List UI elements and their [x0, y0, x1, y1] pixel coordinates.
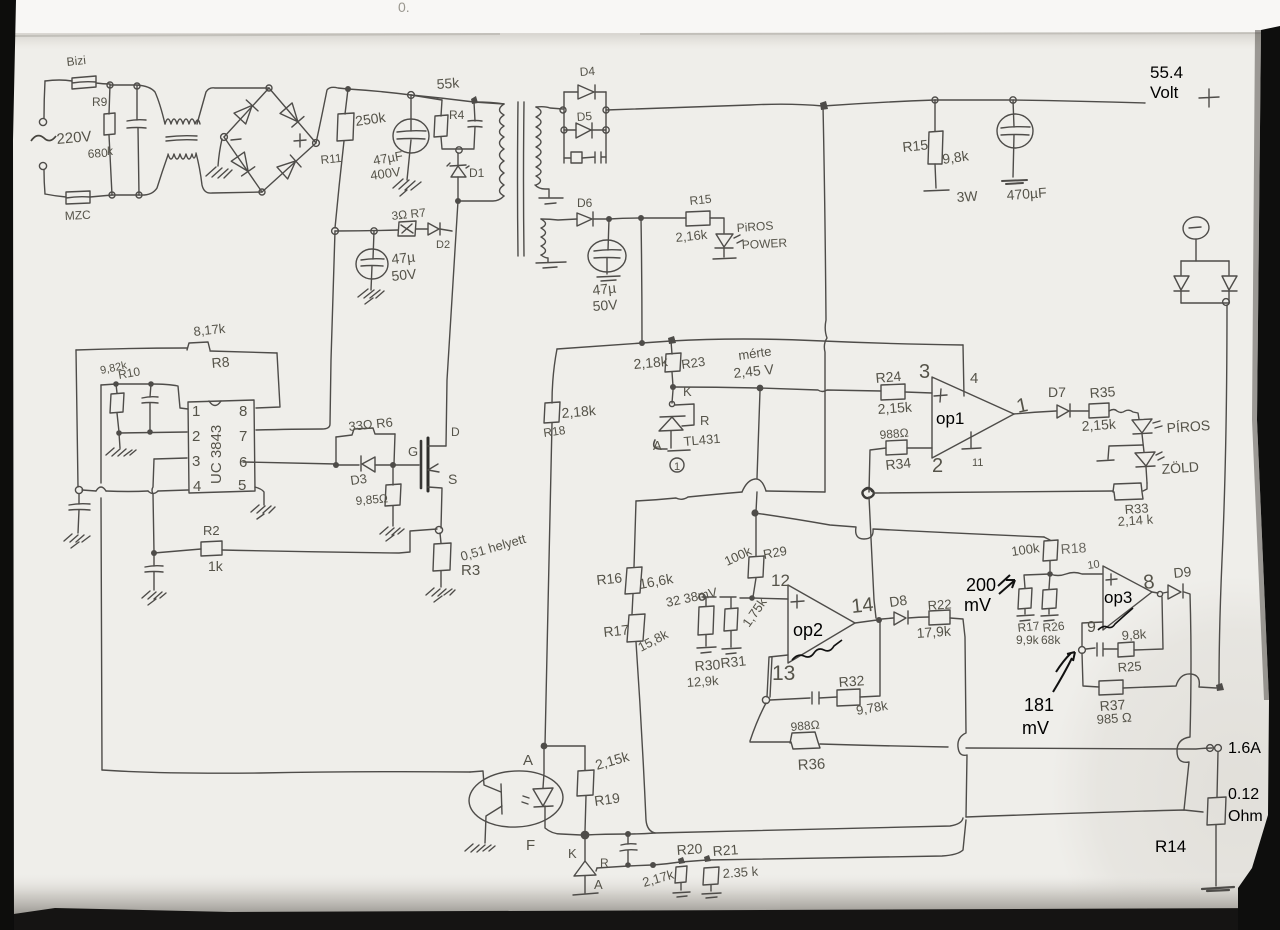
wire C1 bottom stem	[138, 128, 139, 195]
svg-text:Volt: Volt	[1150, 83, 1179, 102]
node R20 top	[678, 857, 685, 864]
bottom-right gray wash	[1050, 575, 1280, 930]
op1 plus sign	[934, 389, 947, 402]
transistor Q1 source lead	[428, 487, 442, 528]
bottom black band	[0, 908, 1280, 930]
wire R33 right to D13	[1143, 483, 1147, 491]
wire LED cathode stem	[723, 248, 725, 257]
resistor R14 body	[1207, 797, 1226, 825]
op1 V- tick	[962, 432, 981, 449]
wire R4 top tap from rail	[411, 95, 442, 100]
wire R9 bottom	[109, 135, 112, 195]
svg-text:D5: D5	[576, 109, 593, 124]
ground 985 hatch	[380, 527, 404, 541]
capacitor C10 timing top plate	[69, 504, 90, 505]
resistor R5b 9.85ohm body	[385, 484, 401, 506]
wire C7 bottom stem	[606, 258, 608, 274]
node TL431a K	[670, 384, 676, 390]
svg-text:R31: R31	[720, 652, 747, 671]
svg-text:R15: R15	[902, 136, 929, 155]
meter M1 circle	[1182, 215, 1211, 240]
node block right top	[603, 107, 609, 113]
wire C10 top stem	[78, 494, 80, 504]
diode D4 top edge wire	[564, 91, 606, 93]
svg-text:2,18k: 2,18k	[561, 402, 598, 421]
transistor Q1 drain lead	[428, 445, 446, 447]
wire C8 top stem	[150, 384, 151, 397]
AC terminal bottom	[39, 162, 46, 169]
svg-text:S: S	[448, 471, 457, 487]
wire C4 bottom stem	[371, 266, 372, 290]
plus output marker	[1199, 89, 1219, 107]
svg-text:A: A	[594, 877, 603, 892]
svg-text:8: 8	[1142, 571, 1155, 594]
wire choke bottom to bridge bottom vertex	[196, 153, 262, 193]
wire R37 stem down	[1082, 653, 1099, 687]
svg-text:11: 11	[972, 457, 983, 469]
wire divider node left to R17b R26	[1024, 574, 1050, 589]
svg-text:2: 2	[192, 428, 200, 445]
svg-text:68k: 68k	[1041, 633, 1061, 647]
capacitor C4 bottom plate	[361, 265, 383, 268]
resistor R19 body	[577, 770, 594, 796]
optocoupler LED light marks	[522, 796, 529, 804]
svg-text:1.6A: 1.6A	[1228, 740, 1261, 757]
wire node to cap node top	[110, 84, 137, 86]
svg-text:TL431: TL431	[683, 431, 721, 449]
svg-text:47µ: 47µ	[592, 280, 617, 298]
svg-text:1: 1	[192, 403, 200, 420]
wire R8 rail drop to pin8	[256, 353, 280, 408]
wire aux feed left to R18a drop	[557, 343, 642, 349]
wire comp ground rail to pin2	[119, 432, 187, 433]
left black border band	[0, 0, 16, 930]
svg-text:7: 7	[239, 428, 247, 445]
wire R3 top stem	[440, 533, 441, 543]
wire R4 top stem	[441, 100, 442, 116]
capacitor C7 47u50V-b circle	[588, 240, 626, 272]
svg-text:R17: R17	[603, 621, 630, 640]
svg-text:8: 8	[239, 403, 247, 420]
wire mid leds to bar	[1108, 445, 1143, 459]
svg-text:3W: 3W	[956, 188, 979, 205]
resistor R37 body	[1099, 680, 1123, 695]
wire D8 to R22	[908, 617, 929, 618]
wire secondary top to D4 block	[536, 107, 563, 109]
TL431 U6 triangle	[574, 861, 596, 876]
wire cap node to pin1	[151, 384, 188, 409]
wire right shunt bus down	[1219, 305, 1227, 686]
resistor R30 body	[698, 606, 714, 635]
resistor R34 body	[886, 440, 907, 455]
wire C1 top stem	[136, 86, 138, 120]
snubber C5 cap bars	[582, 152, 606, 163]
wire output rail end	[1013, 100, 1145, 103]
ground comp hatch	[106, 448, 136, 456]
resistor R9 body	[104, 113, 115, 135]
capacitor C7 top plate	[594, 250, 621, 251]
wire R16 corner down	[634, 501, 636, 567]
wire AC bottom to fuse F2	[45, 194, 66, 197]
diode D4 bar	[594, 85, 596, 99]
svg-text:9,85Ω: 9,85Ω	[355, 491, 388, 508]
wire TL431a anode stem	[670, 431, 672, 448]
svg-text:R21: R21	[712, 841, 739, 859]
wire op2 pin13 down doubled	[767, 655, 788, 697]
TL431 U2 ref box	[675, 404, 694, 426]
resistor R35 body	[1089, 403, 1109, 418]
wire R rail right long	[707, 820, 966, 860]
wire sense line to R14	[966, 810, 1203, 817]
svg-text:D: D	[451, 425, 460, 439]
wire C7 top stem	[608, 219, 609, 250]
ground secondary tick	[539, 198, 563, 204]
wire D3 node wire	[336, 464, 393, 466]
annotation black arrow 181mV	[1053, 652, 1075, 692]
optocoupler LED bar	[534, 806, 553, 807]
svg-text:D1: D1	[469, 166, 485, 180]
svg-text:Ohm: Ohm	[1228, 808, 1263, 825]
diode block bottom rail	[1181, 302, 1229, 304]
resistor R3 body	[433, 543, 451, 571]
node block left mid	[561, 127, 567, 133]
wire HV rail to 47u400V node	[348, 89, 411, 95]
svg-text:R2: R2	[203, 523, 220, 538]
wire R18a bottom long down to opto anode	[545, 423, 552, 745]
LED D13 ZOLD bar	[1136, 466, 1155, 467]
transformer T1 secondary winding	[536, 107, 541, 185]
capacitor C10 timing bottom plate	[69, 509, 90, 512]
node R2 left	[151, 550, 157, 556]
svg-text:R3: R3	[461, 562, 480, 579]
wire 250k bottom to aux node	[335, 141, 344, 228]
terminal pin4 circle	[75, 486, 82, 493]
resistor R4 body	[434, 115, 448, 137]
ground LED bar	[713, 258, 736, 259]
wire output rail to R15b node	[823, 100, 935, 106]
wire left rail R8 down to pin4 terminal	[76, 350, 78, 487]
resistor R17b body	[1018, 588, 1032, 609]
diode D3 bar	[360, 456, 362, 471]
svg-text:D3: D3	[349, 471, 368, 488]
wire C13 bottom stem	[627, 851, 629, 864]
wire C9 top stem	[153, 553, 155, 566]
bridge bottom vertex node	[259, 189, 265, 195]
resistor R15a body	[686, 211, 710, 226]
wire R34 left down to knot	[869, 448, 886, 492]
ground opto hatch	[465, 844, 495, 852]
wire op2 output	[855, 620, 877, 623]
ground pin5 hatch	[251, 505, 275, 519]
wire C8 bottom stem	[149, 403, 151, 432]
node R10 bottom	[116, 430, 122, 436]
LED D13 arrows	[1156, 452, 1164, 460]
node opto anode	[541, 743, 548, 750]
node TL431a K circle	[669, 401, 674, 406]
wire shunt rail left segment	[750, 741, 790, 743]
svg-text:R8: R8	[211, 353, 230, 371]
wire R8 rail left segment	[76, 348, 187, 350]
svg-text:R16: R16	[596, 569, 623, 588]
transistor Q1 MOSFET channel bar	[427, 438, 430, 491]
svg-text:2,18k: 2,18k	[633, 353, 670, 372]
wire R25 right up to output	[1134, 597, 1163, 650]
wire comp ground stem	[119, 433, 120, 448]
capacitor C6 top plate	[1001, 127, 1030, 128]
svg-text:D2: D2	[436, 239, 450, 251]
TL431 U2 triangle	[659, 417, 683, 431]
capacitor C4 top plate	[361, 259, 384, 260]
node 1.6A twin circles	[1207, 745, 1214, 752]
bridge diode B2 top-right edge	[269, 88, 316, 143]
wire aux top exit to D6	[541, 219, 577, 220]
wire R10 node to cap node	[116, 383, 151, 385]
capacitor C1 X-cap top plate	[127, 120, 146, 121]
ground C2 hatch	[393, 179, 421, 196]
wire bus 1.6A to R14	[1217, 752, 1218, 797]
wire C1 bottom to choke rise	[139, 155, 168, 195]
wire op2 out to D8	[882, 618, 893, 619]
wire K rail continue right to sense cluster	[655, 818, 963, 833]
wire R7 to D2	[416, 228, 428, 230]
wire pin3 vertical down	[152, 459, 154, 552]
wire D1 to lower node	[457, 177, 459, 200]
capacitor C3 snubber bottom plate	[468, 126, 482, 129]
wire output rail to 470u node	[935, 99, 1012, 101]
wire C2 bottom stem	[407, 140, 411, 180]
wire pin13 to fb cap	[770, 698, 810, 700]
TL431 U2 cathode bar	[660, 416, 685, 417]
choke L1 bottom winding	[168, 154, 196, 159]
op-amp U5 op3 triangle	[1103, 566, 1152, 630]
ground C7 bar	[597, 276, 620, 281]
svg-text:3: 3	[192, 453, 200, 470]
capacitor C12 op2 fb bars	[812, 692, 837, 704]
node block right mid	[603, 127, 609, 133]
svg-text:9: 9	[1087, 619, 1096, 636]
svg-text:9,9k: 9,9k	[1016, 633, 1040, 647]
resistor R20 body	[675, 866, 687, 883]
wire R15a to LED	[710, 218, 724, 233]
bridge diode B4 bottom-right edge	[262, 143, 316, 192]
diode D7 triangle	[1057, 405, 1069, 418]
wire secondary bottom to ground	[535, 185, 549, 197]
svg-text:220V: 220V	[56, 128, 92, 148]
wire R35 to PIROS led squiggle	[1109, 410, 1139, 420]
resistor R29 100k body	[748, 556, 764, 578]
wire R18a drop vertical	[552, 349, 557, 403]
node C8 bottom	[147, 429, 153, 435]
node 47u400V top	[408, 92, 415, 99]
resistor R7 3ohm body scribble	[398, 221, 416, 236]
choke L1 top winding	[165, 119, 200, 124]
resistor R22 body	[929, 610, 950, 625]
node shunt bus top	[1223, 299, 1230, 306]
svg-text:50V: 50V	[592, 296, 619, 314]
wire aux node to vcc node	[609, 218, 641, 219]
node output rail sense tap	[820, 101, 828, 110]
wire 2.45V to R24	[760, 388, 881, 392]
wire pin6 gate drive	[243, 462, 336, 464]
wire sense horizontal continue to R16 corner	[636, 492, 742, 501]
wire R29 bottom stem	[753, 578, 756, 597]
svg-text:5: 5	[238, 477, 246, 494]
diode D8 bar	[907, 611, 909, 624]
LED D13 ZOLD triangle	[1135, 452, 1155, 466]
optocoupler emitter lead	[485, 806, 502, 843]
resistor R23 body	[665, 353, 681, 372]
svg-text:R9: R9	[92, 95, 108, 109]
wire op1 supply drop to pin4	[963, 345, 964, 396]
wire drain vertical D1 node to MOSFET drain	[446, 201, 458, 446]
svg-text:R4: R4	[449, 108, 465, 122]
capacitor C9 pin3 filter top plate	[145, 566, 163, 567]
svg-text:200: 200	[966, 575, 996, 595]
wire shunt rail right of R36	[820, 744, 1212, 749]
wire pin7 vcc right then up	[256, 231, 335, 430]
wire C10 bottom stem	[78, 510, 79, 533]
wire opto cathode to K node	[545, 806, 581, 835]
node D3 right	[390, 462, 396, 468]
wire aux feed right to R23 top	[642, 341, 671, 343]
node 470u top	[1010, 97, 1016, 103]
svg-text:A: A	[653, 438, 662, 453]
svg-text:985 Ω: 985 Ω	[1096, 710, 1132, 727]
capacitor C8 comp top plate	[142, 397, 158, 398]
capacitor C6 470uF circle	[997, 114, 1033, 148]
node C1 top	[134, 83, 140, 89]
bridge diode B1 top-left edge	[224, 88, 269, 137]
wire 2.45V vertical down to R29	[756, 391, 760, 556]
diode D11 triangle	[1222, 276, 1237, 290]
svg-text:UC 3843: UC 3843	[208, 425, 225, 484]
wire TL431a K stem	[672, 390, 673, 403]
node aux rail left	[332, 228, 339, 235]
resistor R33 body bump	[1113, 483, 1143, 500]
ground C6 bar	[1002, 180, 1027, 184]
svg-text:2,15k: 2,15k	[1081, 416, 1117, 434]
resistor R18b 100k body	[1043, 540, 1058, 561]
wire R10 bottom stem	[117, 413, 119, 432]
diode D10 bar	[1174, 290, 1189, 292]
wire D12 to D13	[1142, 434, 1144, 452]
wire meter to diode block	[1195, 239, 1197, 261]
svg-text:MZC: MZC	[64, 208, 91, 223]
resistor R1 250k body	[337, 113, 354, 141]
LED PIROS POWER triangle	[716, 234, 733, 247]
meter M1 minus dash	[1189, 227, 1201, 228]
wire R20 to R21	[681, 860, 707, 862]
wire 985 bottom stem	[392, 506, 394, 526]
resistor R32 body	[837, 689, 860, 706]
TL431 U6 anode bar	[573, 893, 598, 895]
bridge diode B2 triangle	[280, 103, 304, 127]
diode D6 triangle	[577, 213, 592, 226]
TL431 U2 anode bar	[654, 440, 690, 451]
node aux vcc tap	[638, 215, 644, 221]
svg-text:2,14 k: 2,14 k	[1117, 512, 1154, 529]
diode D1 zener bar	[447, 163, 469, 168]
op2 plus sign	[791, 595, 804, 608]
bridge top vertex node	[266, 85, 272, 91]
diode D2 bar	[439, 223, 441, 235]
snubber R5 small box on bottom edge	[564, 152, 582, 163]
wire 2.45V node rail	[673, 387, 759, 388]
capacitor C9 pin3 filter bottom plate	[145, 571, 163, 574]
svg-text:D9: D9	[1173, 563, 1193, 581]
ground aux tick	[536, 262, 566, 268]
resistor R21 body	[703, 867, 719, 885]
svg-text:0.: 0.	[398, 0, 410, 15]
wire D9 down long to R14 sense	[1177, 592, 1191, 810]
wire D13 down to R33 right	[1146, 467, 1147, 483]
terminal op2 pin13 circle	[762, 696, 769, 703]
svg-text:Bizi: Bizi	[66, 53, 87, 69]
wire R21 bottom stem	[710, 885, 712, 891]
svg-text:A: A	[523, 752, 533, 769]
wire C9 bottom stem	[153, 572, 155, 590]
wire opto anode node to R19	[544, 745, 585, 747]
fuse F2 MZC	[66, 191, 90, 204]
svg-text:op2: op2	[793, 620, 823, 640]
wire TL431b R rail	[597, 865, 652, 868]
wire divider node to op3 pin10	[1050, 573, 1102, 576]
node D1 bottom	[455, 198, 461, 204]
transistor Q1 MOSFET gate bar	[420, 441, 423, 488]
node op3 fb	[1079, 647, 1086, 654]
wire AC bottom left vertical	[44, 170, 45, 194]
annotation black arrow 200mV	[998, 575, 1015, 594]
diode D10 lower stem	[1180, 291, 1182, 303]
svg-text:17,9k: 17,9k	[916, 623, 952, 641]
wire R rail to R20	[653, 862, 680, 865]
wire node to R2	[154, 549, 201, 553]
wire D7 to R35	[1070, 410, 1089, 412]
svg-text:0.12: 0.12	[1228, 786, 1259, 803]
wire primary top entry	[474, 102, 504, 104]
resistor R24 body	[881, 384, 905, 400]
optocoupler collector lead	[470, 771, 501, 792]
diode D4 triangle	[578, 85, 594, 99]
transformer T1 primary winding	[500, 104, 505, 196]
wire AC top left vertical	[44, 81, 45, 118]
IC U1 UC3843 body	[188, 400, 255, 493]
choke L1 core lines	[166, 136, 197, 141]
svg-text:R14: R14	[1155, 837, 1186, 856]
wire R14 bottom stem	[1215, 825, 1217, 886]
node aux feed mid	[639, 340, 645, 346]
bridge plus sign	[294, 134, 306, 147]
diode D11 lower stem	[1228, 291, 1230, 303]
svg-text:R: R	[600, 856, 609, 870]
capacitor C3 snubber top plate	[468, 120, 482, 123]
optocoupler U7 oval	[468, 769, 565, 830]
wire output rail D4 block to sense tap	[606, 104, 823, 110]
TL431a circled 1	[670, 458, 684, 472]
wire comp rail to R10	[101, 384, 116, 385]
wire R16 to R17	[632, 594, 633, 614]
wire R17b bottom tick	[1017, 609, 1034, 621]
right black border band	[1238, 26, 1280, 930]
bottom paper-edge shadow band	[0, 872, 1280, 918]
bridge diode B3 bottom-left edge	[224, 137, 262, 192]
svg-text:k: k	[107, 144, 114, 158]
D4 D5 block right rail	[605, 92, 607, 163]
wire R6 left stem up	[335, 437, 337, 465]
node op3 plus divider	[1047, 571, 1053, 577]
wire D6 to node	[593, 218, 609, 220]
bridge diode B3 triangle	[231, 152, 254, 176]
